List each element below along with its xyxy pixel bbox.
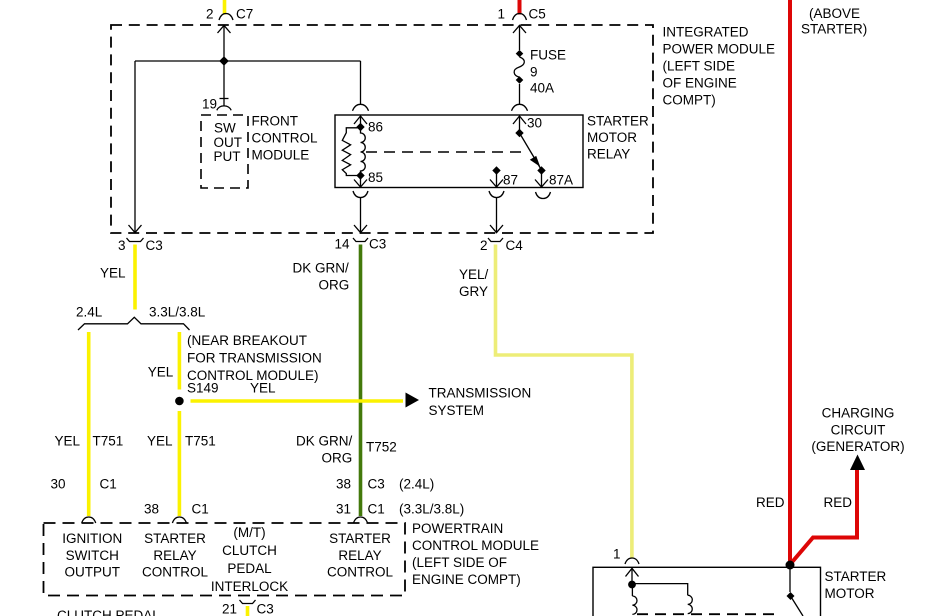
connector arc above pin 30 — [512, 104, 528, 111]
svg-text:30: 30 — [51, 477, 66, 492]
PCM connector arcs — [82, 517, 96, 523]
wire YEL 2.4L branch — [87, 332, 91, 516]
svg-text:CLUTCH: CLUTCH — [222, 543, 277, 558]
arrow up at C7 entry — [218, 25, 231, 33]
svg-text:OUTPUT: OUTPUT — [65, 565, 121, 580]
arrowhead to charging circuit — [850, 455, 865, 471]
wire YEL stub below 21 C3 — [246, 606, 250, 616]
wire right drop to relay pin 86 — [360, 61, 362, 105]
svg-text:RED: RED — [824, 495, 853, 510]
arrow to transmission system — [406, 393, 420, 408]
svg-text:RED: RED — [756, 495, 785, 510]
wire YEL S149 to transmission system — [191, 399, 404, 403]
svg-text:(2.4L): (2.4L) — [399, 477, 434, 492]
svg-text:COMPT): COMPT) — [663, 93, 716, 108]
svg-text:PEDAL: PEDAL — [227, 561, 272, 576]
pin 87A wire arrow down — [541, 171, 543, 188]
wire RED main above starter — [788, 0, 792, 565]
connector arc above pin 86 — [353, 104, 369, 111]
svg-text:SW: SW — [214, 121, 236, 136]
wire YEL 3.3L branch through S149 — [178, 332, 182, 390]
arrow down at 3 C3 exit — [129, 225, 142, 233]
fuse 9 40A — [519, 25, 521, 50]
svg-text:3: 3 — [118, 238, 126, 253]
svg-text:RELAY: RELAY — [338, 548, 381, 563]
svg-text:STARTER): STARTER) — [801, 22, 867, 37]
pin 85 node — [356, 171, 364, 180]
starter internal dashed link — [637, 613, 778, 615]
svg-text:CONTROL MODULE: CONTROL MODULE — [412, 538, 539, 553]
svg-text:S149: S149 — [187, 381, 219, 396]
wire RED stub at 1 C5 — [518, 0, 522, 15]
svg-text:2: 2 — [206, 7, 214, 22]
connector cup below pin 87 — [489, 191, 504, 198]
svg-text:C1: C1 — [368, 502, 385, 517]
svg-text:C7: C7 — [236, 7, 253, 22]
pin 86 arrow — [354, 116, 367, 124]
svg-text:SWITCH: SWITCH — [66, 548, 119, 563]
wire YEL below S149 — [178, 411, 182, 516]
svg-text:CLUTCH PEDAL: CLUTCH PEDAL — [57, 608, 160, 616]
svg-text:GRY: GRY — [459, 284, 488, 299]
svg-text:RELAY: RELAY — [153, 548, 196, 563]
svg-text:(LEFT SIDE OF: (LEFT SIDE OF — [412, 555, 507, 570]
starter solenoid node — [628, 581, 636, 589]
svg-text:YEL: YEL — [100, 266, 126, 281]
relay coil — [342, 128, 360, 176]
starter switch wire — [789, 567, 791, 592]
connector cup below pin 85 — [353, 191, 368, 198]
svg-text:(LEFT SIDE: (LEFT SIDE — [663, 59, 736, 74]
connector 1 C5 — [513, 14, 527, 21]
svg-text:POWERTRAIN: POWERTRAIN — [412, 521, 503, 536]
svg-text:FUSE: FUSE — [530, 48, 566, 63]
svg-text:C3: C3 — [257, 602, 274, 616]
wire 87 to 2 C4 — [496, 198, 498, 233]
svg-text:(3.3L/3.8L): (3.3L/3.8L) — [399, 502, 464, 517]
svg-text:31: 31 — [336, 502, 351, 517]
wire DK GRN/ORG — [359, 245, 363, 517]
pin 87 node — [492, 166, 500, 174]
starter pin 1 connector — [625, 558, 639, 564]
svg-text:MOTOR: MOTOR — [825, 586, 875, 601]
svg-text:87: 87 — [503, 173, 518, 188]
svg-text:9: 9 — [530, 65, 538, 80]
svg-text:1: 1 — [498, 7, 506, 22]
svg-text:85: 85 — [368, 170, 383, 185]
starter coil left — [632, 596, 637, 614]
svg-text:OUT: OUT — [214, 135, 243, 150]
connector 14 C3 — [353, 238, 368, 242]
svg-text:40A: 40A — [530, 81, 554, 96]
svg-text:ORG: ORG — [319, 278, 350, 293]
svg-text:1: 1 — [613, 547, 621, 562]
engine split brace — [78, 317, 190, 330]
starter motor box — [593, 567, 821, 616]
svg-text:CONTROL: CONTROL — [252, 131, 318, 146]
powertrain control module box — [44, 523, 406, 596]
svg-text:21: 21 — [222, 602, 237, 616]
svg-text:T752: T752 — [366, 440, 397, 455]
svg-text:POWER MODULE: POWER MODULE — [663, 42, 776, 57]
svg-text:CHARGING: CHARGING — [822, 406, 895, 421]
svg-text:C3: C3 — [369, 237, 386, 252]
svg-text:C3: C3 — [146, 238, 163, 253]
svg-text:C4: C4 — [506, 238, 524, 253]
wire from C7 arrow down to pin 19 — [223, 25, 225, 106]
svg-text:14: 14 — [335, 237, 351, 252]
integrated power module box — [111, 25, 653, 233]
connector 2 C4 — [488, 238, 503, 242]
svg-text:PUT: PUT — [214, 149, 241, 164]
wire YEL from 3 C3 — [133, 245, 137, 310]
svg-text:STARTER: STARTER — [587, 114, 649, 129]
starter solenoid wires — [632, 584, 688, 596]
relay switch blade — [520, 133, 542, 170]
wire YEL stub at 2 C7 — [223, 0, 227, 15]
pin 30 arrow — [513, 116, 526, 124]
svg-text:30: 30 — [527, 116, 542, 131]
relay mechanical link — [366, 151, 523, 153]
svg-text:(ABOVE: (ABOVE — [809, 6, 860, 21]
svg-text:86: 86 — [368, 120, 383, 135]
svg-text:CONTROL: CONTROL — [142, 565, 208, 580]
connector 3 C3 — [127, 238, 144, 242]
connector 2 C7 — [219, 14, 233, 21]
pin 86 node — [356, 123, 364, 132]
pin 19 connector — [220, 98, 229, 100]
svg-text:YEL: YEL — [148, 365, 174, 380]
svg-text:ORG: ORG — [322, 451, 353, 466]
svg-text:2.4L: 2.4L — [76, 305, 103, 320]
connector cup below pin 87A — [536, 192, 551, 199]
svg-text:YEL: YEL — [147, 434, 173, 449]
svg-text:STARTER: STARTER — [144, 531, 206, 546]
svg-text:FRONT: FRONT — [252, 114, 299, 129]
svg-text:(GENERATOR): (GENERATOR) — [811, 439, 904, 454]
svg-text:MOTOR: MOTOR — [587, 130, 637, 145]
svg-text:IGNITION: IGNITION — [62, 531, 122, 546]
wire RED branch to charging circuit — [790, 469, 857, 565]
svg-text:FOR TRANSMISSION: FOR TRANSMISSION — [187, 351, 322, 366]
junction node — [219, 56, 229, 66]
pin 87A node — [537, 166, 545, 174]
svg-text:38: 38 — [336, 477, 351, 492]
svg-text:C3: C3 — [368, 477, 385, 492]
svg-text:C5: C5 — [529, 7, 546, 22]
svg-text:(NEAR BREAKOUT: (NEAR BREAKOUT — [187, 333, 307, 348]
svg-text:INTEGRATED: INTEGRATED — [663, 25, 749, 40]
svg-text:STARTER: STARTER — [329, 531, 391, 546]
svg-text:38: 38 — [144, 502, 159, 517]
svg-text:TRANSMISSION: TRANSMISSION — [429, 386, 532, 401]
svg-text:C1: C1 — [192, 502, 209, 517]
svg-text:T751: T751 — [185, 434, 216, 449]
svg-text:SYSTEM: SYSTEM — [429, 403, 485, 418]
starter motor relay box — [335, 115, 583, 188]
wire 85 to 14 C3 — [360, 198, 362, 233]
wire left drop to 3 C3 — [134, 61, 136, 233]
svg-text:3.3L/3.8L: 3.3L/3.8L — [149, 305, 206, 320]
wire YEL/GRY from 2 C4 to starter — [496, 245, 632, 558]
svg-text:STARTER: STARTER — [825, 569, 887, 584]
svg-text:YEL: YEL — [55, 434, 81, 449]
front control module box — [201, 115, 248, 188]
starter pin 1 arrow — [626, 568, 639, 576]
svg-text:INTERLOCK: INTERLOCK — [211, 579, 288, 594]
pin 87 wire arrow down — [496, 171, 498, 188]
wire horizontal branch — [135, 60, 361, 62]
svg-text:CONTROL: CONTROL — [327, 565, 393, 580]
svg-text:OF ENGINE: OF ENGINE — [663, 76, 737, 91]
svg-text:87A: 87A — [549, 173, 573, 188]
svg-text:RELAY: RELAY — [587, 147, 630, 162]
starter coil right — [688, 595, 693, 613]
svg-text:(M/T): (M/T) — [233, 525, 265, 540]
svg-text:MODULE: MODULE — [252, 148, 310, 163]
svg-text:C1: C1 — [100, 477, 117, 492]
svg-text:T751: T751 — [93, 434, 124, 449]
svg-text:DK GRN/: DK GRN/ — [293, 261, 350, 276]
pin 85 wire and arrow down — [360, 176, 362, 188]
svg-text:2: 2 — [480, 238, 488, 253]
svg-text:19: 19 — [202, 97, 217, 112]
svg-text:ENGINE COMPT): ENGINE COMPT) — [412, 572, 521, 587]
svg-text:DK GRN/: DK GRN/ — [296, 434, 353, 449]
starter B+ junction — [786, 561, 795, 570]
switch pivot node — [515, 129, 523, 137]
connector 21 C3 — [240, 600, 256, 604]
svg-text:CIRCUIT: CIRCUIT — [831, 423, 886, 438]
svg-text:YEL/: YEL/ — [459, 267, 489, 282]
svg-text:YEL: YEL — [250, 381, 276, 396]
